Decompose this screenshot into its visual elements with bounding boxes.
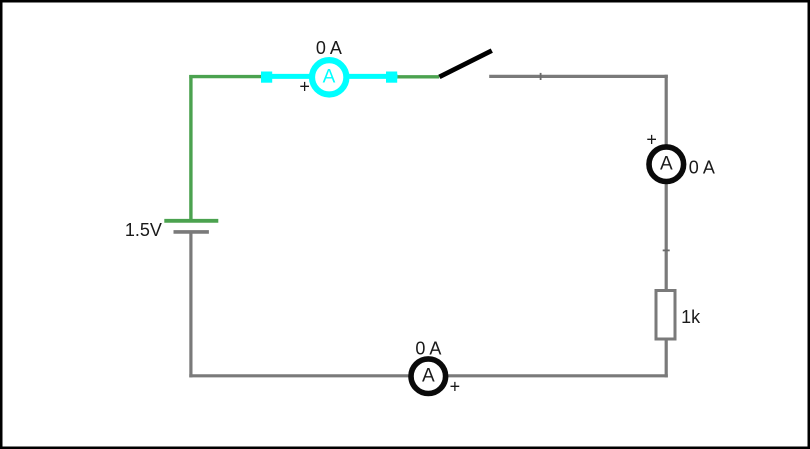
wire: gray bottom right segment (corner to ammeter A3) xyxy=(446,374,668,377)
ammeter A1 selection handle right xyxy=(386,72,397,83)
wire joint on top gray wire xyxy=(540,73,542,80)
wire: green vertical from top corner down to battery + plate xyxy=(189,75,192,219)
wire: gray right vertical lower (resistor R1 to bottom corner) xyxy=(665,340,668,377)
resistor R1 body xyxy=(656,291,675,340)
svg-text:0 A: 0 A xyxy=(316,38,342,58)
svg-text:+: + xyxy=(450,376,461,396)
wire joint on right vertical wire xyxy=(663,249,670,251)
svg-text:0 A: 0 A xyxy=(415,339,441,359)
wire: cyan ammeter A1 left lead xyxy=(261,74,310,79)
svg-text:+: + xyxy=(646,129,657,149)
wire: gray bottom left segment (A3 to bottom-left corner) xyxy=(189,374,411,377)
ammeter A1 (selected, cyan) body xyxy=(312,60,346,94)
ammeter A1 selection handle left xyxy=(261,72,272,83)
wire: gray right vertical middle (A2 to resistor R1) xyxy=(665,181,668,290)
svg-text:+: + xyxy=(299,76,310,96)
battery V1: negative plate (gray, short) xyxy=(174,230,209,234)
wire: green top horizontal from battery corner to ammeter A1 left handle xyxy=(189,75,266,78)
wire: gray top horizontal from switch right contact to top-right corner xyxy=(489,75,668,78)
svg-text:A: A xyxy=(323,66,336,87)
svg-text:1k: 1k xyxy=(681,307,701,327)
wire: cyan ammeter A1 right lead xyxy=(348,74,398,79)
switch S1: open blade xyxy=(439,51,491,77)
svg-text:0 A: 0 A xyxy=(689,158,715,178)
svg-text:A: A xyxy=(660,153,673,174)
wire: gray left vertical (battery - plate down to bottom-left corner) xyxy=(189,232,192,377)
svg-text:1.5V: 1.5V xyxy=(125,220,162,240)
svg-text:A: A xyxy=(422,365,435,386)
wire: gray right vertical upper (corner to ammeter A2) xyxy=(665,75,668,147)
battery V1: positive plate (green, long) xyxy=(164,219,218,223)
ammeter A2 (right) body xyxy=(649,147,684,182)
wire: green segment from A1 right handle to switch left contact xyxy=(392,75,439,78)
ammeter A3 (bottom) body xyxy=(411,359,446,394)
